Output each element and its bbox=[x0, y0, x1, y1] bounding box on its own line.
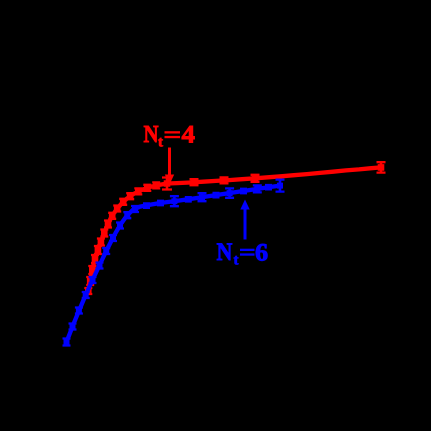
red curve N_t=4 bbox=[89, 167, 382, 292]
red data point markers bbox=[85, 164, 384, 294]
red error bars bbox=[88, 162, 381, 294]
svg-text:t: t bbox=[234, 253, 239, 269]
svg-text:N: N bbox=[217, 239, 233, 267]
svg-text:4: 4 bbox=[182, 120, 195, 148]
svg-text:t: t bbox=[158, 135, 163, 151]
blue error bars bbox=[67, 180, 281, 346]
svg-text:6: 6 bbox=[255, 238, 268, 266]
blue curve N_t=6 bbox=[67, 186, 281, 342]
blue data point markers bbox=[64, 183, 284, 345]
svg-text:N: N bbox=[144, 120, 160, 147]
blue annotation arrow bbox=[244, 209, 247, 240]
red annotation arrow bbox=[168, 148, 171, 176]
